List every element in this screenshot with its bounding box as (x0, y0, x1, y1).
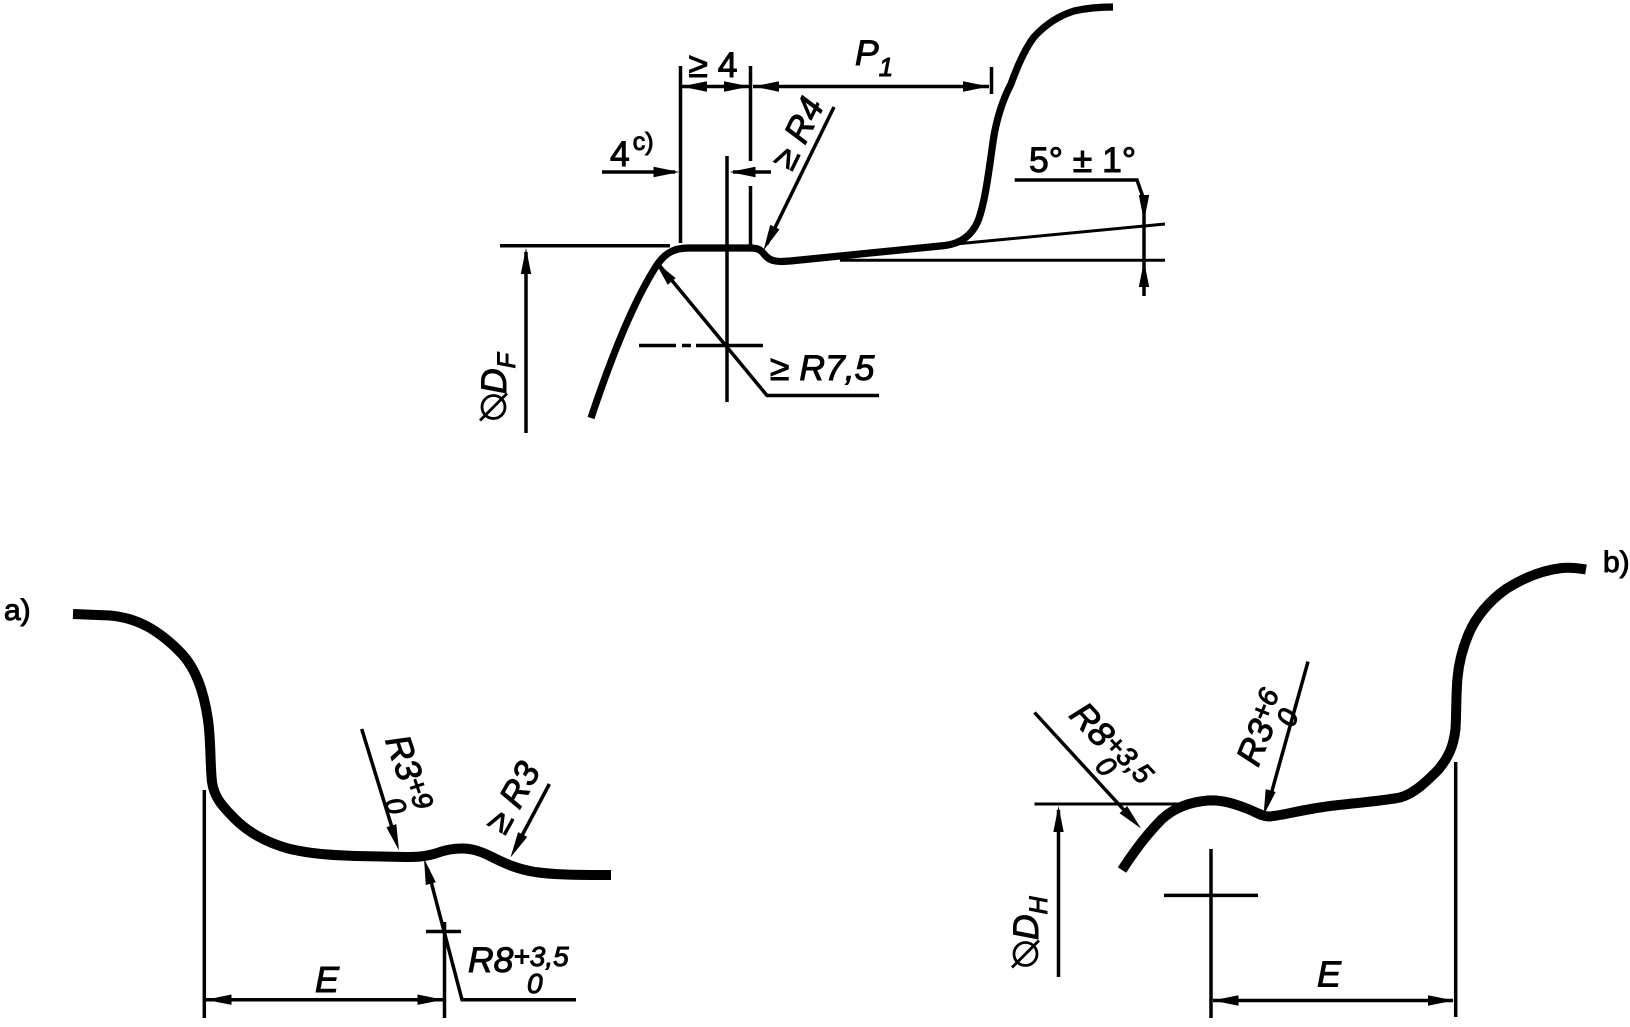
svg-text:≥ R7,5: ≥ R7,5 (770, 348, 875, 388)
profile curve (figure a rim contour) (73, 614, 611, 875)
dimension 4c): right part with arrow pointing left (733, 170, 771, 174)
profile curve (figure b rim contour) (1122, 568, 1586, 870)
node: centre cross of R8 (figure b) (1209, 849, 1213, 1018)
leader >=R7,5 with arrow (660, 266, 879, 396)
dimension >=4: line and arrows (681, 85, 750, 89)
node: P1 right end tick (990, 67, 994, 94)
node: centre cross bar of R8 (426, 930, 461, 934)
node: vertical centre line through R7,5 centre (725, 156, 729, 402)
leader R3 +6/0 with arrow (1270, 662, 1308, 798)
node: left extension line (E) (203, 790, 207, 1018)
dimension 4c): left part with arrow pointing right (602, 170, 675, 174)
label diameter DF (rotated -90): manual diameter symbol + D + subscript F (482, 396, 505, 419)
wire: thin horizontal reference line left of flange top (500, 244, 670, 248)
wire: sloped thin line (bead seat extension 5 deg) (940, 224, 1165, 246)
svg-text:b): b) (1603, 546, 1630, 579)
svg-text:E: E (1317, 954, 1342, 995)
node: right extension line (E) through cross (443, 922, 447, 1018)
dimension diameter DF: arrow up + line (524, 252, 528, 433)
node: 5 deg angle arrows (1139, 195, 1149, 221)
leader >=R4 with arrow at the R4 dip (767, 107, 834, 244)
dimension E (figure b) (1213, 999, 1453, 1003)
svg-text:E: E (315, 959, 340, 1000)
svg-text:a): a) (4, 594, 31, 627)
node: dash-dot centre line of R7,5 (639, 344, 676, 348)
label diameter DH (rotated -90): manual diameter symbol + D + subscript H (1014, 943, 1037, 966)
node: right extension line (E, figure b) (1454, 762, 1458, 1017)
profile curve (top figure rim contour) (591, 7, 1113, 418)
wire: thin horizontal tangent line (DH level) (1035, 803, 1223, 806)
dimension E (figure a) (206, 998, 443, 1002)
svg-text:5° ± 1°: 5° ± 1° (1029, 140, 1136, 180)
wire: underline of 5 deg label with bent leader (1015, 180, 1144, 296)
leader R8 +3,5/0 (figure b) with arrow (1035, 713, 1125, 811)
node: extension line left (>=4) (679, 66, 683, 243)
svg-text:≥ 4: ≥ 4 (688, 45, 737, 85)
leader >=R3 with arrow (517, 784, 549, 845)
wire: horizontal thin reference line for angle (840, 259, 1165, 262)
dimension P1: line and arrows (753, 85, 989, 89)
node: extension line right (>=4 / P1), with gap for 4c) arrow (749, 66, 753, 161)
dimension diameter DH: arrow up + line (1057, 810, 1061, 977)
leader R3 +9/0 with arrow (362, 729, 394, 834)
leader R8 +3,5/0 (figure a) with arrow pointing up at dip (428, 870, 576, 1000)
